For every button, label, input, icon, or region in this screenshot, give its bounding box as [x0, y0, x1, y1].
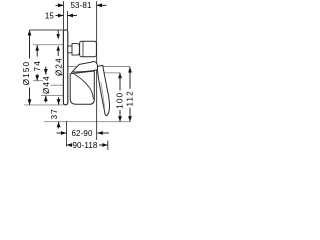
svg-text:74: 74 — [33, 60, 42, 71]
extension line body top left (y=74.5) — [59, 74, 64, 76]
extension line plate top (y=30) — [30, 29, 64, 31]
knob face line — [82, 42, 84, 57]
dimension 37 (vertical, x=58.6, outside arrows) — [50, 97, 60, 129]
diverter stem — [68, 46, 72, 53]
dimension 90-118 (horizontal, y=143.5, inside arrows) — [67, 141, 108, 150]
svg-text:Ø24: Ø24 — [54, 57, 63, 76]
dimension D44 (vertical, x=45.8, outside arrows) — [42, 67, 51, 103]
extension line plate face vertical (x=67.5) — [67, 11, 69, 30]
extension line wall face vertical (x=63.5) — [63, 1, 65, 30]
dimension 15 (horizontal, y=15.5, outside arrows) — [45, 11, 77, 20]
svg-text:112: 112 — [125, 90, 134, 107]
lever blade inner contour — [101, 82, 105, 109]
dimension 100 (vertical, x=120) — [116, 73, 125, 122]
extension line knob top (y=44.7) — [33, 44, 64, 46]
svg-text:53-81: 53-81 — [70, 1, 91, 10]
extension line plate bottom (y=104.9) — [24, 104, 64, 106]
dimension D150 (vertical, x=29.5) — [22, 30, 31, 105]
svg-text:62-90: 62-90 — [71, 129, 92, 138]
dimension D24 (vertical, x=58.2, outside arrows) — [54, 31, 63, 77]
svg-text:90-118: 90-118 — [72, 141, 97, 150]
svg-text:15: 15 — [45, 11, 55, 20]
dimension 62-90 (horizontal, y=133, outside arrows) — [57, 129, 110, 138]
extension line top of lever (y=66.5) — [68, 66, 130, 68]
svg-text:100: 100 — [116, 92, 125, 109]
extension line 74 bottom (y=80.7) — [33, 80, 43, 82]
lever blade — [97, 65, 110, 115]
handle body — [70, 71, 94, 104]
wall plate (escutcheon, side view) — [63, 30, 67, 105]
extension line max reach vertical (x=107.8) — [107, 141, 109, 151]
svg-text:Ø150: Ø150 — [22, 61, 31, 86]
dimension 53-81 (horizontal, y=4.5, outside arrows) — [56, 1, 107, 10]
diverter mid piece — [72, 43, 79, 55]
svg-text:Ø44: Ø44 — [42, 75, 51, 94]
extension line body bottom ref (y=95.6) — [41, 95, 64, 97]
dimension 74 (vertical, x=37.2) — [33, 45, 42, 81]
svg-text:37: 37 — [50, 108, 59, 119]
extension line plate face bottom vertical (x=66.5) — [66, 121, 68, 147]
diverter knob head — [80, 41, 97, 57]
hub parting arc — [74, 74, 93, 99]
lever cap (hub) — [71, 62, 97, 73]
extension line lever front vertical (x=96.6) — [96, 1, 98, 140]
extension line lever tip bottom (y=121.5) — [44, 121, 130, 123]
centerline handle axis (y=85.2) — [51, 84, 64, 86]
extension line top of handle body (y=72.8) — [96, 72, 120, 74]
dimension 112 (vertical, x=130) — [125, 67, 134, 122]
